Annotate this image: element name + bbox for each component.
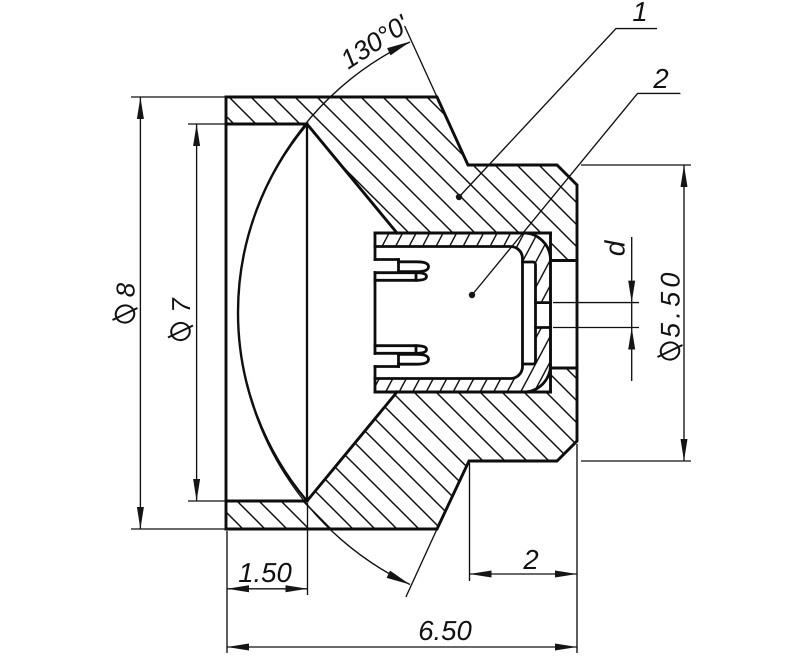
svg-text:2: 2 xyxy=(522,544,538,575)
outlet bore top xyxy=(551,259,578,262)
extension line 1.50/6.50 left xyxy=(226,531,228,653)
svg-text:8: 8 xyxy=(111,282,141,297)
arrow 6.50 left xyxy=(227,644,249,651)
slot A top: upper line xyxy=(375,258,399,261)
inner cone top xyxy=(307,124,397,233)
inner cone bottom xyxy=(307,392,397,501)
leader 1 xyxy=(459,29,657,197)
slot B top: bullet xyxy=(375,273,427,281)
arrow 130deg arc top xyxy=(387,38,412,55)
arrow d top xyxy=(628,281,635,303)
svg-text:d: d xyxy=(600,239,631,256)
insert left face lower segment xyxy=(374,367,377,393)
arrow Ø8 top xyxy=(137,97,144,119)
extension line Ø5.50 top xyxy=(581,164,691,166)
dome outer corner bottom xyxy=(524,365,551,392)
arrow 1.50 right xyxy=(286,585,308,592)
svg-text:1.50: 1.50 xyxy=(238,557,292,588)
slot A' tick xyxy=(397,354,400,366)
extension line d bottom xyxy=(553,327,639,329)
2 extension line left xyxy=(469,463,471,581)
svg-text:6.50: 6.50 xyxy=(418,615,472,646)
dome outer corner top xyxy=(524,233,551,260)
6.50 dim line xyxy=(227,646,577,648)
arrow 1.50 left xyxy=(227,585,249,592)
2 dim line xyxy=(470,573,578,575)
svg-text:7: 7 xyxy=(166,297,196,313)
Ø8 label xyxy=(111,282,141,324)
outlet bore bottom xyxy=(551,367,578,370)
body part1 hatch top region xyxy=(226,97,577,261)
hole d lower edge xyxy=(536,326,551,329)
insert left face middle segment xyxy=(374,273,377,354)
spherical cavity arc xyxy=(238,124,307,501)
slot B' tick xyxy=(415,346,418,354)
extension line Ø7 top xyxy=(188,123,226,125)
insert left face upper segment xyxy=(374,233,377,260)
d dim line xyxy=(631,237,633,381)
slot A tick xyxy=(397,260,400,272)
Ø5.50 dim line xyxy=(683,165,685,461)
leader 2 xyxy=(472,93,680,295)
extension line Ø7 bottom xyxy=(188,500,226,502)
arrow Ø8 bottom xyxy=(137,507,144,529)
leader 1 dot on part 1 xyxy=(456,194,462,200)
slot B' bottom: bullet xyxy=(375,346,427,354)
1.50 dim line xyxy=(227,588,308,590)
arrow 2 right xyxy=(555,571,577,578)
arrow Ø5.50 top xyxy=(681,165,688,187)
arrow d bottom xyxy=(628,328,635,350)
arrow Ø5.50 bottom xyxy=(681,439,688,461)
pocket bottom wall / insert bottom face xyxy=(375,391,551,394)
outer profile xyxy=(226,97,577,529)
hole d upper edge xyxy=(536,301,551,304)
svg-text:1: 1 xyxy=(632,0,647,27)
sphere/bore edge vertical xyxy=(306,124,308,501)
extension line Ø5.50 bottom xyxy=(581,460,691,462)
Ø5.50 label xyxy=(656,268,686,361)
Ø7 dim line xyxy=(196,124,198,501)
insert part2 hatch ring xyxy=(375,233,551,392)
arrow Ø7 top xyxy=(193,124,200,146)
extension line Ø8 top xyxy=(131,96,226,98)
d label xyxy=(600,239,631,256)
2 / 6.50 extension right xyxy=(576,444,578,653)
extension line 1.50 right xyxy=(307,503,309,595)
slot A' bottom: bullet xyxy=(399,354,429,364)
extension line d top xyxy=(553,302,639,304)
svg-text:5.50: 5.50 xyxy=(656,268,686,338)
arrow Ø7 bottom xyxy=(193,479,200,501)
arrow 2 left xyxy=(470,571,492,578)
130 deg extension top xyxy=(405,26,437,97)
slot A top: bullet xyxy=(399,262,429,272)
Ø7 label xyxy=(166,297,196,342)
bore Ø7 top line xyxy=(226,123,307,126)
cavity outline xyxy=(375,247,523,379)
recess outline xyxy=(523,262,536,364)
130°0' label xyxy=(335,9,415,75)
leader 2 dot on part 2 xyxy=(469,292,475,298)
extension line Ø8 bottom xyxy=(131,528,226,530)
arrow 6.50 right xyxy=(555,644,577,651)
bore Ø7 bottom line xyxy=(226,500,307,503)
pocket floor / dome / bore mouth xyxy=(549,233,552,392)
slot A' bottom: lower line xyxy=(375,365,399,368)
body part1 hatch bottom region xyxy=(226,368,577,529)
arrow 130deg arc bottom xyxy=(387,571,412,588)
pocket top wall / insert top face xyxy=(375,232,551,235)
130 deg dimension arc xyxy=(238,42,410,585)
Ø8 dim line xyxy=(139,97,141,529)
130 deg extension bottom xyxy=(406,529,437,597)
arrowheads xyxy=(137,38,688,651)
svg-text:2: 2 xyxy=(652,63,668,94)
slot B tick xyxy=(415,273,418,281)
